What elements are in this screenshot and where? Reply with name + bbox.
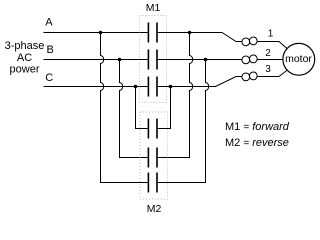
svg-text:2: 2 [265,48,271,59]
svg-text:3: 3 [265,64,271,75]
svg-text:M1: M1 [146,2,161,14]
svg-text:power: power [10,63,40,75]
svg-text:B: B [47,44,54,56]
svg-text:3-phase: 3-phase [5,40,45,52]
svg-text:motor: motor [285,53,312,65]
svg-text:M1 = forward: M1 = forward [225,121,290,133]
svg-text:A: A [45,16,53,28]
svg-text:M2 = reverse: M2 = reverse [225,137,289,149]
svg-text:1: 1 [268,29,274,40]
svg-text:AC: AC [17,52,32,64]
svg-text:M2: M2 [147,203,162,215]
svg-text:C: C [45,72,53,84]
